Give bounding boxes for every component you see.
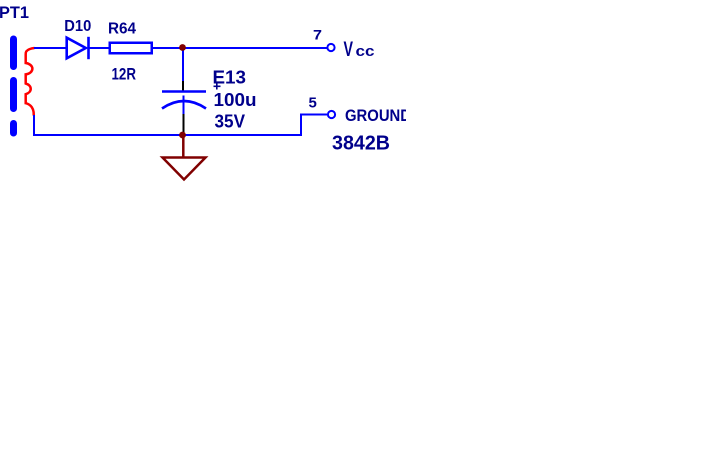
wire capacitor top pin (black part) [182,81,184,91]
resistor R64 [110,43,152,54]
wire to pin 5 [300,114,327,116]
svg-text:7: 7 [313,27,322,43]
wire diode to resistor [89,47,110,49]
label GROUND (clipped at right) [345,106,411,125]
wire winding-top to diode [34,47,66,49]
diode D10 [67,38,86,59]
capacitor E13 top plate [162,90,206,93]
transformer PT1 core bar 3 [10,124,17,134]
svg-text:35V: 35V [215,112,246,132]
wire junction down to capacitor (blue part) [182,48,184,81]
transformer PT1 winding [26,48,35,116]
capacitor E13 bottom plate (arc) [162,101,206,109]
pin 7 terminal circle [327,44,334,51]
wire winding-bottom vertical [33,115,35,136]
svg-text:R64: R64 [108,21,136,38]
capacitor bottom pin (black part) [183,114,185,133]
ground stem [182,135,185,157]
wire bottom horizontal [33,134,301,136]
polarity plus sign [214,85,221,87]
junction dot at R64/cap node [179,44,186,51]
svg-text:3842B: 3842B [332,133,390,155]
svg-text:5: 5 [309,95,317,112]
svg-text:12R: 12R [112,65,137,84]
wire jog up to pin 5 [300,114,302,137]
ground triangle [163,158,206,180]
transformer PT1 core bar 1 [10,39,17,67]
transformer PT1 core bar 2 [10,81,17,109]
svg-text:GROUND: GROUND [345,106,411,125]
pin 5 terminal circle [328,111,335,118]
svg-text:V: V [344,38,354,61]
junction dot at cap/ground node [179,132,186,139]
svg-text:D10: D10 [64,18,91,35]
svg-text:PT1: PT1 [0,3,29,22]
capacitor bottom pin (blue part) [183,96,185,115]
wire resistor to pin 7 [153,47,327,49]
svg-text:cc: cc [356,43,375,60]
svg-text:100u: 100u [214,90,257,110]
